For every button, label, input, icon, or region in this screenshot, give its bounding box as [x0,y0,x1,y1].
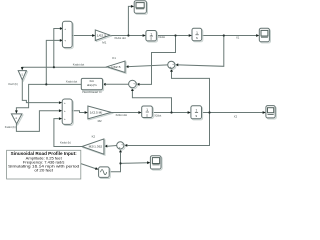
arrowhead into gain K1 [125,65,128,68]
arrowhead into B1 in2 [60,39,63,42]
wire sum1 to gain K1 [129,65,168,67]
arrowhead into Fcn input [102,83,105,86]
arrowhead into scope S3 [263,111,266,114]
svg-text:of 20 feet: of 20 feet [34,167,54,172]
svg-text:+: + [64,101,66,105]
triangle gain damper [5,114,23,129]
annotation box [7,150,81,179]
node spring force branch [53,66,55,68]
svg-text:Ksdot dot: Ksdot dot [73,62,85,66]
gain K1 [107,56,126,73]
arrowhead into integrator I3 [138,111,141,114]
arrowhead into triangle gain damper [15,110,18,113]
arrowhead into B1 in1 [60,27,63,30]
arrowhead into sum3 bottom [131,88,134,91]
svg-text:+: + [64,109,66,113]
wire gain M1 to integrator I1 [110,35,143,37]
svg-text:M2/1.362: M2/1.362 [89,145,103,149]
wire into sine gen [81,164,96,169]
arrowhead into mux in3 [59,117,62,120]
svg-text:Xsdot dot: Xsdot dot [66,79,78,83]
wire sum3 to Fcn [106,83,129,85]
svg-text:+: + [64,38,66,42]
svg-text:X2: X2 [234,114,238,118]
wire road branch to scope S4 [121,162,148,165]
wire I3 to I4 [152,112,187,114]
node X1dot tap [174,34,176,36]
svg-text:-: - [130,84,131,88]
svg-text:+: + [64,27,66,31]
wire gain K1 out left to triangle gain Ks [22,66,107,69]
svg-text:X1: X1 [236,35,240,39]
sum circle1 [168,61,176,69]
node X2 tap [208,111,210,113]
arrowhead into scope S2 [256,34,259,37]
svg-text:X2dot: X2dot [154,114,161,118]
svg-text:X1dot: X1dot [158,35,165,39]
svg-text:1: 1 [196,31,198,35]
wire tap to scope S1 [128,6,131,35]
svg-text:1/62.5: 1/62.5 [97,34,107,38]
wire X1dot tap down to sum3 [140,36,176,85]
arrowhead into sum1 bottom [170,68,173,71]
arrowhead into scope S1 [131,5,134,8]
integrator I2 [192,28,203,42]
svg-text:X1dot dot: X1dot dot [114,36,126,40]
svg-text:K2: K2 [92,134,96,138]
wire I4 to scope S3 [202,112,263,114]
node X2dot tap [170,111,172,113]
arrowhead into scope S4 [147,161,150,164]
svg-text:Ksdot (b): Ksdot (b) [5,125,16,129]
svg-text:1: 1 [146,108,148,112]
svg-text:1: 1 [196,109,198,113]
sum circle3 [129,80,138,89]
arrowhead into gain K2 [104,145,107,148]
wire I2 to scope S2 [202,35,256,37]
gain K2 [82,134,105,155]
triangle gain Ks [8,71,27,87]
integrator I3 [142,106,154,119]
node X1 tap [223,34,225,36]
wire I1 to I2 [156,35,188,37]
wire X1 tap down to sum1 [178,36,224,67]
svg-text:Ksdot (b): Ksdot (b) [60,141,71,145]
arrowhead into sum1 right [175,63,178,66]
wire sine gen up to sum2 bottom [109,153,120,172]
integrator I4 [191,106,203,120]
svg-text:M2: M2 [98,119,102,123]
Fcn block [81,78,103,94]
gain M1 [95,30,111,45]
wire X2 tap up to sum1 bottom [172,72,210,113]
wire damper branch up to B1 in2 [46,40,60,84]
wire spring branch up to B1 in1 [54,29,60,68]
svg-text:+: + [64,117,66,121]
wire B1 to gain M1 [72,35,92,37]
node X1dotdot tap [127,34,129,36]
arrowhead into sum3 right [136,83,139,86]
scope S2 [259,28,270,43]
arrowhead into mux in1 [59,101,62,104]
arrowhead into integrator I4 [188,111,191,114]
arrowhead into gain M2 [85,111,88,114]
sine wave generator [99,167,111,179]
svg-text:K1: K1 [112,56,116,60]
gain M2 [88,106,112,123]
wire mux out to gain M2 [72,111,84,113]
wire Fcn out to triangle gain damper [16,84,81,110]
mux sum block B2 [62,99,73,126]
arrowhead into gain M1 [92,34,95,37]
arrowhead into triangle gain Ks [21,67,24,70]
sum circle2 [117,142,125,150]
svg-text:abs(u)*u: abs(u)*u [87,83,97,87]
wire X2 tap down to sum2 [127,113,209,146]
arrowhead into integrator I1 [143,34,146,37]
wire triangle damper out to mux in2 [16,111,58,132]
svg-text:Nonlinear C: Nonlinear C [82,90,102,94]
integrator I1 [146,31,158,43]
arrowhead into sum2 bottom [119,149,122,152]
arrowhead into sine gen [95,167,99,171]
node road signal branch [119,162,121,164]
svg-text:Fcn: Fcn [90,79,95,83]
wire triangle Ks out to mux in1 [22,80,59,103]
scope S4 [150,156,162,170]
sum block B1 [62,21,73,48]
wire sum2 to gain K2 [107,145,116,148]
svg-text:1/62.5: 1/62.5 [111,65,121,69]
arrowhead into mux in2 [59,109,62,112]
svg-text:X2dot dot: X2dot dot [116,113,128,117]
wire X2dot tap up to sum3 bottom [132,91,171,113]
scope S1 [134,1,147,15]
svg-text:Ks/2 (b): Ks/2 (b) [8,82,18,86]
wire gain M2 to I3 [111,112,138,114]
svg-text:1/(2.5 M): 1/(2.5 M) [90,111,103,115]
node damper force branch [45,83,47,85]
scope S3 [266,106,276,119]
wire gain K2 out to mux in3 [54,119,82,147]
svg-text:M1: M1 [102,41,106,45]
arrowhead into integrator I2 [189,34,192,37]
arrowhead into sum2 right [124,144,127,147]
